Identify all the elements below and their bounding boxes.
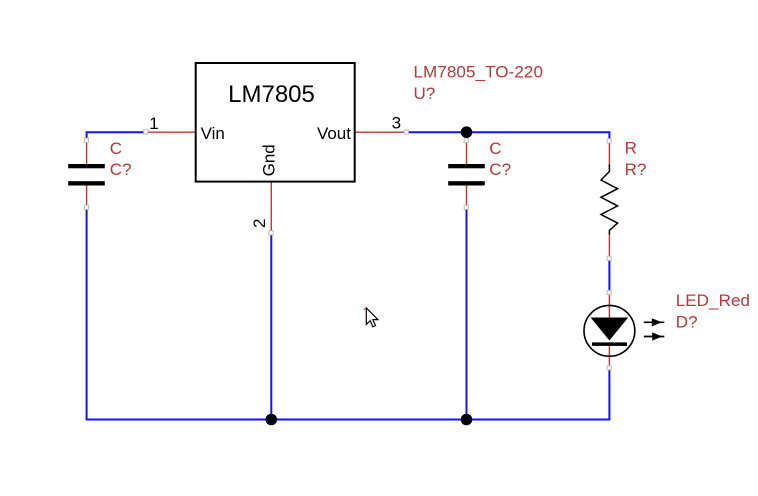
svg-text:LM7805: LM7805 [228, 81, 315, 108]
svg-text:LED_Red: LED_Red [676, 291, 750, 310]
svg-text:LM7805_TO-220: LM7805_TO-220 [414, 63, 544, 82]
svg-text:R: R [625, 139, 637, 158]
svg-text:C: C [489, 139, 501, 158]
svg-text:C?: C? [110, 160, 132, 179]
svg-text:2: 2 [250, 219, 269, 228]
svg-text:C: C [110, 139, 122, 158]
svg-text:C?: C? [489, 160, 511, 179]
svg-text:U?: U? [414, 84, 436, 103]
svg-text:3: 3 [392, 114, 401, 133]
svg-text:D?: D? [676, 313, 698, 332]
svg-text:Vout: Vout [317, 124, 351, 143]
svg-text:R?: R? [625, 160, 647, 179]
svg-text:Gnd: Gnd [259, 144, 278, 176]
svg-text:Vin: Vin [201, 124, 225, 143]
svg-text:1: 1 [149, 114, 158, 133]
